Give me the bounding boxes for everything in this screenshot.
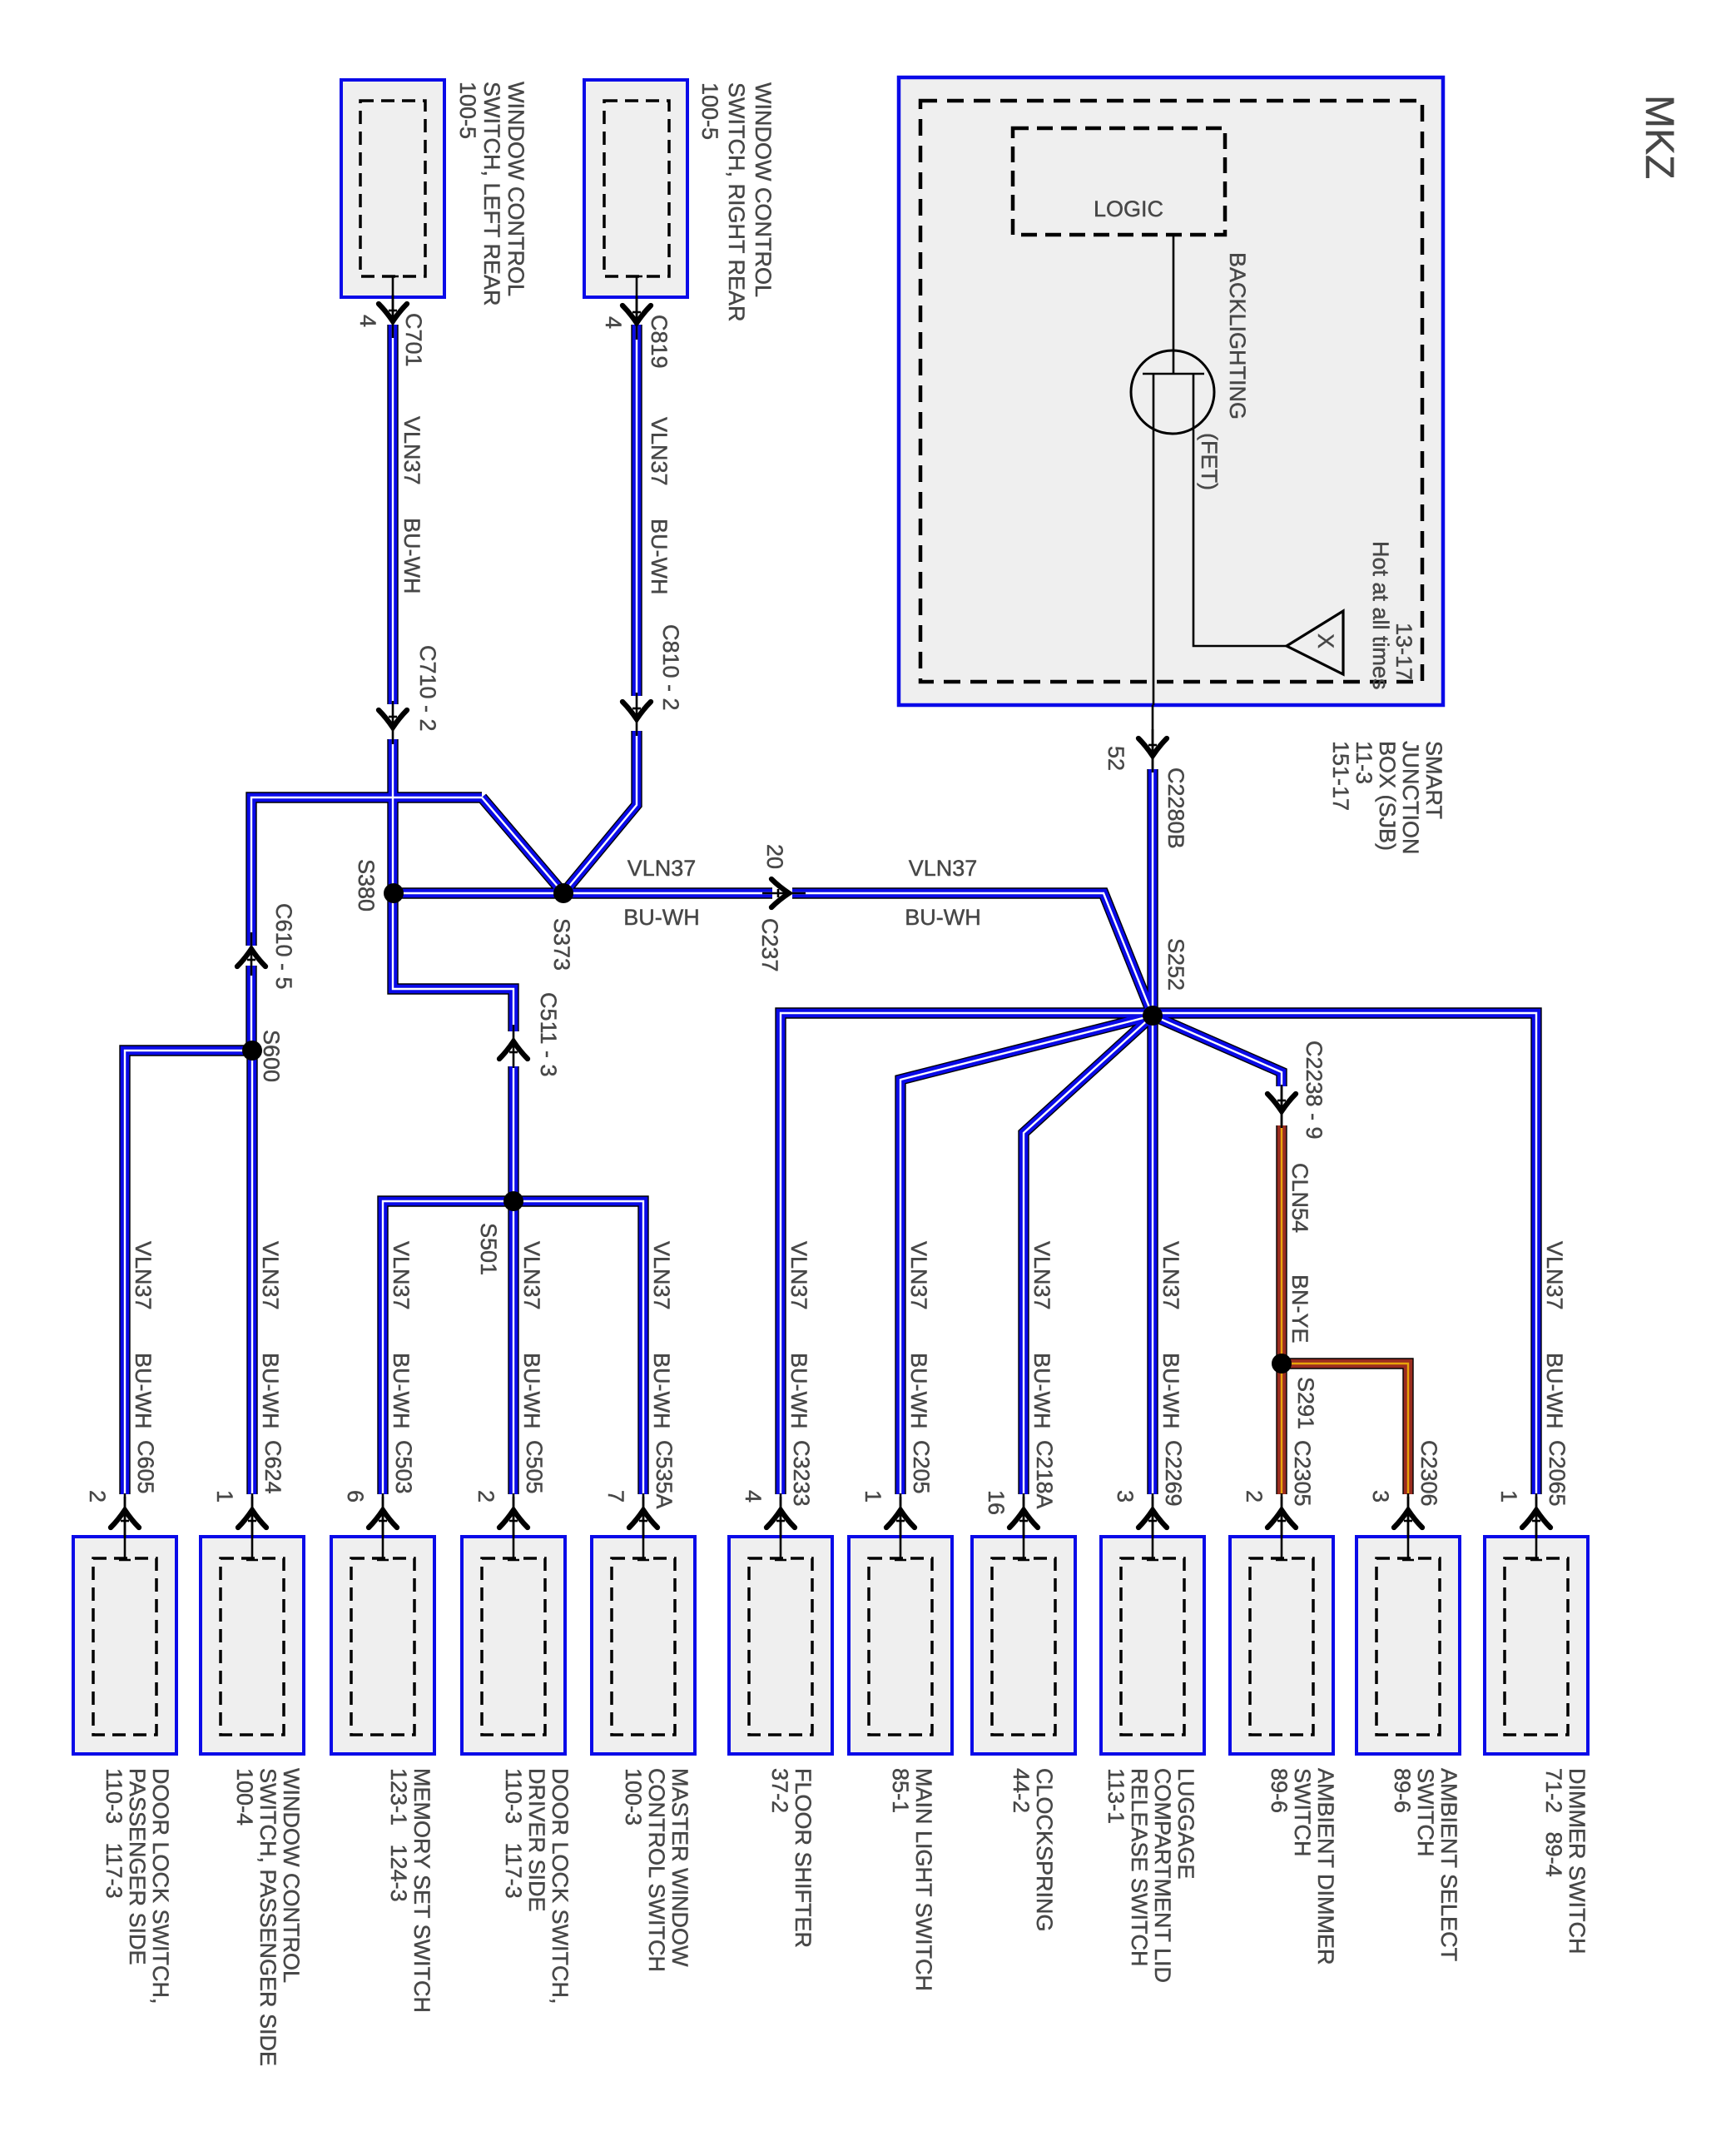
- svg-text:C503: C503: [391, 1440, 416, 1494]
- svg-text:X: X: [1313, 633, 1338, 648]
- svg-text:1: 1: [1496, 1490, 1521, 1503]
- svg-text:C2238 - 9: C2238 - 9: [1302, 1041, 1327, 1140]
- svg-text:BU-WH: BU-WH: [389, 1353, 414, 1428]
- svg-text:VLN37: VLN37: [399, 416, 424, 485]
- svg-text:BU-WH: BU-WH: [399, 518, 424, 594]
- svg-text:C605: C605: [133, 1440, 158, 1494]
- svg-text:S373: S373: [549, 918, 574, 971]
- svg-text:C205: C205: [909, 1440, 934, 1494]
- svg-text:3: 3: [1113, 1490, 1138, 1503]
- svg-text:C3233: C3233: [789, 1440, 814, 1507]
- svg-text:C819: C819: [647, 315, 672, 369]
- svg-text:BU-WH: BU-WH: [519, 1353, 544, 1428]
- svg-text:VLN37: VLN37: [627, 856, 697, 881]
- svg-text:VLN37: VLN37: [1029, 1241, 1054, 1310]
- svg-text:BOX (SJB): BOX (SJB): [1375, 741, 1400, 851]
- svg-text:C2305: C2305: [1290, 1440, 1315, 1507]
- svg-text:VLN37: VLN37: [131, 1241, 156, 1310]
- svg-text:JUNCTION: JUNCTION: [1398, 741, 1423, 855]
- svg-text:MASTER WINDOW: MASTER WINDOW: [667, 1768, 692, 1967]
- svg-text:SWITCH: SWITCH: [1413, 1768, 1438, 1856]
- svg-text:DIMMER SWITCH: DIMMER SWITCH: [1565, 1768, 1590, 1954]
- svg-text:COMPARTMENT LID: COMPARTMENT LID: [1150, 1768, 1175, 1983]
- svg-text:WINDOW CONTROL: WINDOW CONTROL: [279, 1768, 304, 1983]
- svg-text:C624: C624: [260, 1440, 285, 1494]
- svg-text:BU-WH: BU-WH: [1542, 1353, 1567, 1428]
- svg-text:1: 1: [861, 1490, 885, 1503]
- svg-text:DRIVER SIDE: DRIVER SIDE: [524, 1768, 549, 1912]
- svg-text:SWITCH: SWITCH: [1290, 1768, 1315, 1856]
- svg-text:37-2: 37-2: [767, 1768, 792, 1813]
- svg-text:VLN37: VLN37: [258, 1241, 283, 1310]
- svg-text:89-6: 89-6: [1390, 1768, 1415, 1813]
- svg-text:S291: S291: [1293, 1377, 1318, 1429]
- svg-text:100-4: 100-4: [232, 1768, 257, 1826]
- svg-text:S252: S252: [1163, 938, 1188, 991]
- svg-text:BU-WH: BU-WH: [647, 519, 672, 594]
- svg-text:151-17: 151-17: [1328, 741, 1353, 811]
- svg-text:C218A: C218A: [1032, 1440, 1057, 1509]
- svg-text:2: 2: [1242, 1490, 1267, 1503]
- svg-text:VLN37: VLN37: [389, 1241, 414, 1310]
- svg-text:3: 3: [1368, 1490, 1393, 1503]
- svg-text:1: 1: [212, 1490, 237, 1503]
- svg-text:4: 4: [741, 1490, 766, 1503]
- svg-text:S380: S380: [354, 859, 379, 912]
- svg-text:100-5: 100-5: [697, 82, 722, 140]
- svg-text:C610 - 5: C610 - 5: [271, 903, 296, 990]
- svg-text:BU-WH: BU-WH: [786, 1353, 811, 1428]
- svg-text:MEMORY SET SWITCH: MEMORY SET SWITCH: [409, 1768, 434, 2013]
- svg-text:C2065: C2065: [1545, 1440, 1570, 1507]
- svg-text:13-17: 13-17: [1391, 623, 1416, 680]
- svg-text:C511 - 3: C511 - 3: [536, 992, 561, 1077]
- svg-text:4: 4: [355, 315, 380, 327]
- svg-text:C535A: C535A: [652, 1440, 677, 1509]
- svg-text:MAIN LIGHT SWITCH: MAIN LIGHT SWITCH: [911, 1768, 936, 1991]
- svg-text:89-6: 89-6: [1267, 1768, 1292, 1813]
- svg-text:SWITCH, PASSENGER SIDE: SWITCH, PASSENGER SIDE: [255, 1768, 280, 2066]
- svg-text:(FET): (FET): [1197, 433, 1222, 490]
- svg-text:BU-WH: BU-WH: [649, 1353, 674, 1428]
- svg-text:CONTROL SWITCH: CONTROL SWITCH: [644, 1768, 669, 1972]
- svg-text:BU-WH: BU-WH: [906, 1353, 931, 1428]
- svg-text:VLN37: VLN37: [1542, 1241, 1567, 1310]
- svg-text:S600: S600: [259, 1030, 284, 1082]
- svg-text:6: 6: [343, 1490, 368, 1503]
- svg-text:CLOCKSPRING: CLOCKSPRING: [1032, 1768, 1057, 1932]
- svg-text:2: 2: [474, 1490, 498, 1503]
- svg-text:WINDOW CONTROL: WINDOW CONTROL: [751, 82, 776, 297]
- svg-text:C505: C505: [522, 1440, 547, 1494]
- svg-text:11-3: 11-3: [1352, 741, 1376, 784]
- svg-text:C701: C701: [401, 313, 426, 367]
- svg-text:Hot at all times: Hot at all times: [1368, 541, 1393, 690]
- svg-text:C2306: C2306: [1416, 1440, 1441, 1507]
- svg-text:CLN54: CLN54: [1287, 1163, 1312, 1233]
- svg-text:16: 16: [984, 1490, 1009, 1515]
- svg-text:VLN37: VLN37: [906, 1241, 931, 1310]
- svg-text:VLN37: VLN37: [786, 1241, 811, 1310]
- svg-text:85-1: 85-1: [888, 1768, 913, 1813]
- svg-text:BU-WH: BU-WH: [258, 1353, 283, 1428]
- svg-text:100-3: 100-3: [621, 1768, 646, 1826]
- svg-text:AMBIENT SELECT: AMBIENT SELECT: [1436, 1768, 1461, 1961]
- svg-text:100-5: 100-5: [455, 82, 480, 139]
- svg-text:44-2: 44-2: [1009, 1768, 1034, 1813]
- svg-text:VLN37: VLN37: [649, 1241, 674, 1310]
- svg-text:SWITCH, RIGHT REAR: SWITCH, RIGHT REAR: [724, 82, 749, 322]
- svg-text:RELEASE SWITCH: RELEASE SWITCH: [1127, 1768, 1152, 1967]
- svg-text:7: 7: [603, 1490, 628, 1503]
- svg-text:VLN37: VLN37: [1158, 1241, 1183, 1310]
- svg-text:BN-YE: BN-YE: [1287, 1274, 1312, 1344]
- svg-text:LOGIC: LOGIC: [1094, 196, 1163, 221]
- svg-text:C237: C237: [757, 918, 782, 972]
- svg-text:C2280B: C2280B: [1163, 768, 1188, 849]
- svg-text:MKZ: MKZ: [1637, 95, 1681, 179]
- svg-text:S501: S501: [476, 1223, 501, 1275]
- svg-text:VLN37: VLN37: [647, 417, 672, 486]
- svg-text:FLOOR SHIFTER: FLOOR SHIFTER: [791, 1768, 816, 1948]
- svg-text:DOOR LOCK SWITCH,: DOOR LOCK SWITCH,: [548, 1768, 573, 2004]
- svg-text:4: 4: [601, 316, 626, 329]
- svg-text:AMBIENT DIMMER: AMBIENT DIMMER: [1313, 1768, 1338, 1965]
- svg-text:71-2 89-4: 71-2 89-4: [1541, 1768, 1566, 1877]
- svg-text:BU-WH: BU-WH: [623, 905, 699, 930]
- svg-text:123-1 124-3: 123-1 124-3: [386, 1768, 411, 1902]
- svg-text:20: 20: [762, 844, 787, 869]
- svg-text:BU-WH: BU-WH: [1029, 1353, 1054, 1428]
- svg-text:SMART: SMART: [1421, 741, 1446, 819]
- svg-text:VLN37: VLN37: [519, 1241, 544, 1310]
- svg-text:BACKLIGHTING: BACKLIGHTING: [1225, 252, 1250, 420]
- svg-text:PASSENGER SIDE: PASSENGER SIDE: [125, 1768, 150, 1965]
- svg-text:BU-WH: BU-WH: [1158, 1353, 1183, 1428]
- svg-text:110-3 117-3: 110-3 117-3: [102, 1768, 126, 1899]
- svg-text:113-1: 113-1: [1104, 1768, 1128, 1824]
- svg-text:C710 - 2: C710 - 2: [415, 645, 440, 732]
- svg-text:C810 - 2: C810 - 2: [658, 624, 683, 711]
- svg-text:WINDOW CONTROL: WINDOW CONTROL: [503, 82, 528, 296]
- svg-text:LUGGAGE: LUGGAGE: [1173, 1768, 1198, 1880]
- svg-text:110-3 117-3: 110-3 117-3: [501, 1768, 526, 1899]
- svg-text:DOOR LOCK SWITCH,: DOOR LOCK SWITCH,: [148, 1768, 173, 2004]
- svg-text:BU-WH: BU-WH: [905, 905, 980, 930]
- svg-text:SWITCH, LEFT REAR: SWITCH, LEFT REAR: [479, 82, 504, 306]
- svg-text:52: 52: [1104, 746, 1128, 771]
- svg-text:VLN37: VLN37: [909, 856, 978, 881]
- svg-text:2: 2: [85, 1490, 110, 1503]
- svg-text:BU-WH: BU-WH: [131, 1353, 156, 1428]
- svg-text:C2269: C2269: [1161, 1440, 1186, 1507]
